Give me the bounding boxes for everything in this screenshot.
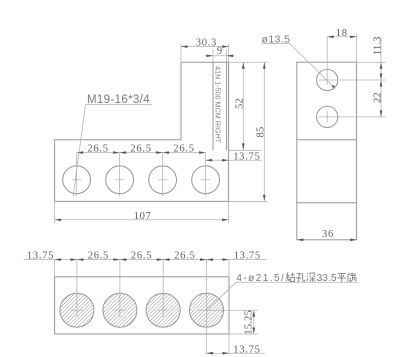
svg-text:15.25: 15.25 — [244, 310, 255, 335]
svg-text:26.5: 26.5 — [131, 251, 152, 262]
svg-text:36: 36 — [322, 229, 334, 240]
svg-text:11.3: 11.3 — [372, 36, 383, 55]
svg-text:26.5: 26.5 — [88, 251, 109, 262]
svg-text:26.5: 26.5 — [87, 143, 108, 154]
svg-text:18: 18 — [336, 28, 348, 39]
svg-text:13.75: 13.75 — [27, 251, 54, 262]
svg-text:13.75: 13.75 — [233, 344, 260, 355]
svg-text:26.5: 26.5 — [130, 143, 151, 154]
svg-text:30.3: 30.3 — [196, 38, 217, 49]
svg-text:26.5: 26.5 — [174, 251, 195, 262]
svg-text:9: 9 — [217, 46, 223, 57]
svg-text:52: 52 — [235, 98, 246, 109]
svg-text:13.75: 13.75 — [234, 251, 261, 262]
svg-text:107: 107 — [134, 211, 152, 222]
svg-text:13.75: 13.75 — [233, 151, 260, 162]
svg-text:26.5: 26.5 — [173, 143, 194, 154]
svg-text:85: 85 — [256, 127, 267, 138]
svg-text:41N 1-500 MCM RIGHT: 41N 1-500 MCM RIGHT — [214, 66, 223, 144]
svg-text:22: 22 — [372, 92, 383, 103]
